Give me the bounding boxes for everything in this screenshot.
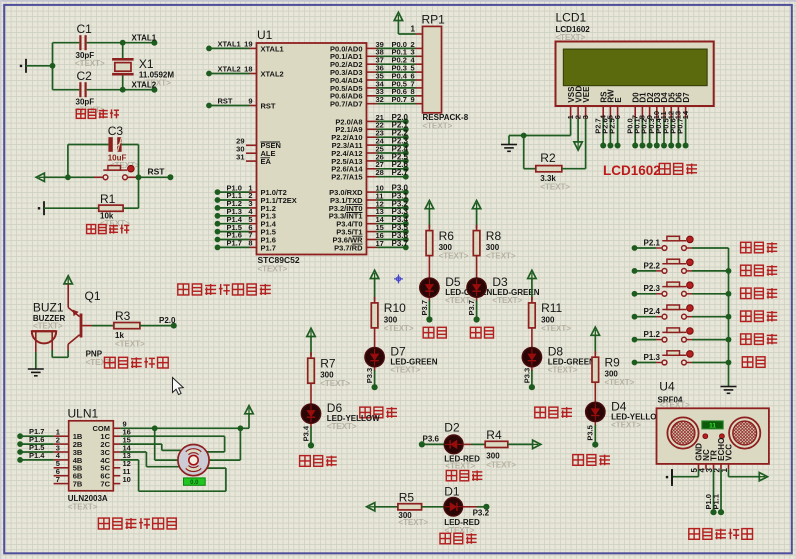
svg-text:<TEXT>: <TEXT> — [115, 339, 145, 348]
svg-text:D8: D8 — [548, 345, 564, 359]
svg-text:VEE: VEE — [582, 86, 591, 103]
svg-text:R5: R5 — [399, 491, 415, 505]
svg-text:D4: D4 — [611, 399, 627, 413]
svg-text:P1.3: P1.3 — [644, 353, 661, 362]
svg-text:32: 32 — [376, 95, 384, 104]
svg-text:<TEXT>: <TEXT> — [439, 252, 469, 261]
svg-text:XTAL1: XTAL1 — [218, 40, 241, 49]
svg-text:14: 14 — [681, 110, 690, 119]
svg-text:Q1: Q1 — [85, 289, 101, 303]
svg-text:RST: RST — [148, 166, 166, 176]
svg-text:U4: U4 — [659, 379, 675, 393]
svg-text:D5: D5 — [445, 275, 461, 289]
svg-text:P3.7/RD: P3.7/RD — [334, 243, 363, 252]
svg-text:<TEXT>: <TEXT> — [611, 420, 641, 429]
svg-text:R3: R3 — [115, 309, 131, 323]
svg-text:<TEXT>: <TEXT> — [548, 366, 578, 375]
svg-text:P3.6: P3.6 — [423, 435, 440, 444]
svg-text:E: E — [614, 97, 623, 103]
svg-text:R10: R10 — [384, 301, 406, 315]
svg-text:7B: 7B — [73, 480, 83, 489]
svg-text:<TEXT>: <TEXT> — [445, 461, 475, 470]
svg-text:R4: R4 — [486, 428, 502, 442]
svg-text:C3: C3 — [108, 124, 124, 138]
svg-text:P3.7: P3.7 — [392, 239, 409, 248]
svg-text:ULN1: ULN1 — [68, 407, 99, 421]
svg-text:P2.7/A15: P2.7/A15 — [331, 173, 362, 182]
svg-text:<TEXT>: <TEXT> — [423, 122, 453, 131]
svg-text:<TEXT>: <TEXT> — [398, 518, 428, 527]
svg-text:<TEXT>: <TEXT> — [384, 324, 414, 333]
svg-text:R11: R11 — [541, 301, 562, 315]
svg-text:19: 19 — [244, 40, 252, 49]
svg-text:<TEXT>: <TEXT> — [33, 322, 63, 331]
svg-text:R8: R8 — [486, 229, 502, 243]
svg-text:P3.4: P3.4 — [301, 425, 310, 441]
svg-text:RP1: RP1 — [422, 13, 446, 27]
svg-text:P2.0: P2.0 — [159, 316, 176, 325]
svg-text:8: 8 — [248, 239, 252, 248]
svg-text:<TEXT>: <TEXT> — [68, 503, 98, 512]
svg-text:7: 7 — [56, 475, 60, 484]
svg-text:LCD1602: LCD1602 — [603, 163, 661, 178]
svg-text:1: 1 — [411, 25, 416, 34]
svg-text:RST: RST — [218, 97, 233, 106]
svg-text:XTAL1: XTAL1 — [261, 44, 284, 53]
svg-text:28: 28 — [376, 168, 384, 177]
svg-text:0.0: 0.0 — [190, 480, 199, 486]
svg-text:300: 300 — [486, 452, 500, 461]
svg-text:R2: R2 — [540, 151, 556, 165]
svg-text:STC89C52: STC89C52 — [258, 255, 300, 265]
svg-text:U1: U1 — [257, 28, 273, 42]
svg-text:C1: C1 — [77, 22, 93, 36]
svg-text:<TEXT>: <TEXT> — [486, 252, 516, 261]
svg-text:D3: D3 — [492, 275, 508, 289]
svg-text:<TEXT>: <TEXT> — [390, 366, 420, 375]
svg-text:EA: EA — [261, 157, 272, 166]
svg-text:XTAL2: XTAL2 — [261, 69, 284, 78]
svg-text:P3.5: P3.5 — [586, 425, 595, 440]
svg-text:P2.5: P2.5 — [608, 118, 617, 133]
svg-text:18: 18 — [244, 65, 252, 74]
svg-text:C2: C2 — [77, 69, 93, 83]
svg-text:D1: D1 — [444, 485, 460, 499]
svg-text:<TEXT>: <TEXT> — [492, 296, 522, 305]
svg-text:P3.3: P3.3 — [365, 368, 374, 383]
svg-text:<TEXT>: <TEXT> — [541, 324, 571, 333]
svg-text:<TEXT>: <TEXT> — [327, 422, 357, 431]
svg-text:10: 10 — [123, 475, 131, 484]
svg-text:XTAL2: XTAL2 — [132, 80, 157, 89]
svg-text:XTAL1: XTAL1 — [132, 33, 157, 42]
svg-text:D7: D7 — [682, 92, 691, 103]
svg-text:P3.7: P3.7 — [420, 300, 429, 315]
svg-text:P0.7: P0.7 — [392, 95, 407, 104]
svg-text:LCD1: LCD1 — [556, 11, 587, 25]
svg-text:9: 9 — [411, 95, 415, 104]
svg-text:P2.2: P2.2 — [644, 261, 661, 270]
svg-text:<TEXT>: <TEXT> — [486, 460, 516, 469]
svg-text:<TEXT>: <TEXT> — [540, 183, 570, 192]
svg-text:P0.7: P0.7 — [676, 118, 685, 133]
svg-text:BUZ1: BUZ1 — [33, 301, 64, 315]
svg-text:9: 9 — [248, 97, 252, 106]
svg-text:<TEXT>: <TEXT> — [605, 378, 635, 387]
svg-text:R7: R7 — [320, 356, 336, 370]
svg-text:R1: R1 — [100, 192, 116, 206]
svg-text:P3.2: P3.2 — [473, 508, 490, 517]
svg-text:P1.4: P1.4 — [29, 451, 45, 460]
svg-text:P1.7: P1.7 — [227, 239, 242, 248]
svg-text:P1.1: P1.1 — [712, 494, 721, 509]
svg-text:P2.3: P2.3 — [644, 284, 661, 293]
svg-text:XTAL2: XTAL2 — [218, 65, 241, 74]
svg-text:<TEXT>: <TEXT> — [258, 265, 288, 274]
svg-text:X1: X1 — [139, 57, 154, 71]
svg-text:P2.7: P2.7 — [392, 168, 409, 177]
svg-text:D7: D7 — [390, 345, 406, 359]
svg-text:P2.4: P2.4 — [644, 307, 661, 316]
svg-text:P1.7: P1.7 — [261, 243, 276, 252]
svg-text:P1.2: P1.2 — [644, 330, 661, 339]
svg-text:31: 31 — [236, 152, 244, 161]
svg-text:P3.7: P3.7 — [467, 300, 476, 315]
svg-text:P3.3: P3.3 — [522, 368, 531, 383]
svg-text:D2: D2 — [444, 420, 460, 434]
svg-text:R9: R9 — [605, 355, 621, 369]
svg-text:P2.1: P2.1 — [644, 238, 661, 247]
svg-text:17: 17 — [376, 239, 384, 248]
svg-text:R6: R6 — [439, 229, 455, 243]
svg-text:7C: 7C — [100, 480, 110, 489]
svg-text:<TEXT>: <TEXT> — [320, 379, 350, 388]
svg-text:VCC: VCC — [725, 444, 734, 461]
svg-text:<TEXT>: <TEXT> — [75, 59, 105, 68]
svg-text:11: 11 — [709, 422, 716, 429]
svg-text:RST: RST — [261, 101, 276, 110]
svg-text:P0.7/AD7: P0.7/AD7 — [330, 100, 363, 109]
svg-text:ULN2003A: ULN2003A — [68, 494, 108, 503]
svg-text:D6: D6 — [327, 401, 343, 415]
